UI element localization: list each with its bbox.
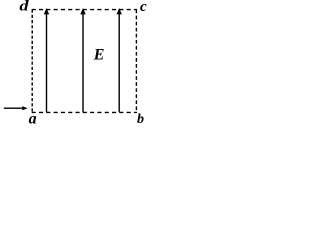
svg-text:b: b — [137, 112, 144, 127]
field line 1 (left, arrow up) — [44, 8, 49, 112]
dashed edge c-b (right) — [135, 10, 137, 113]
svg-text:E: E — [93, 47, 105, 64]
svg-text:a: a — [29, 111, 37, 127]
svg-text:d: d — [19, 0, 29, 15]
dashed edge d-a (left) — [31, 10, 33, 113]
field line 2 (middle, arrow up) — [80, 8, 85, 112]
dashed edge a-b (bottom) — [32, 111, 137, 113]
horizontal arrow pointing at corner a — [4, 106, 28, 110]
field line 3 (right, arrow up) — [117, 8, 122, 112]
Gauss-surface E-field figure — [0, 0, 151, 127]
svg-text:c: c — [140, 0, 147, 15]
dashed edge d-c (top) — [32, 9, 137, 11]
